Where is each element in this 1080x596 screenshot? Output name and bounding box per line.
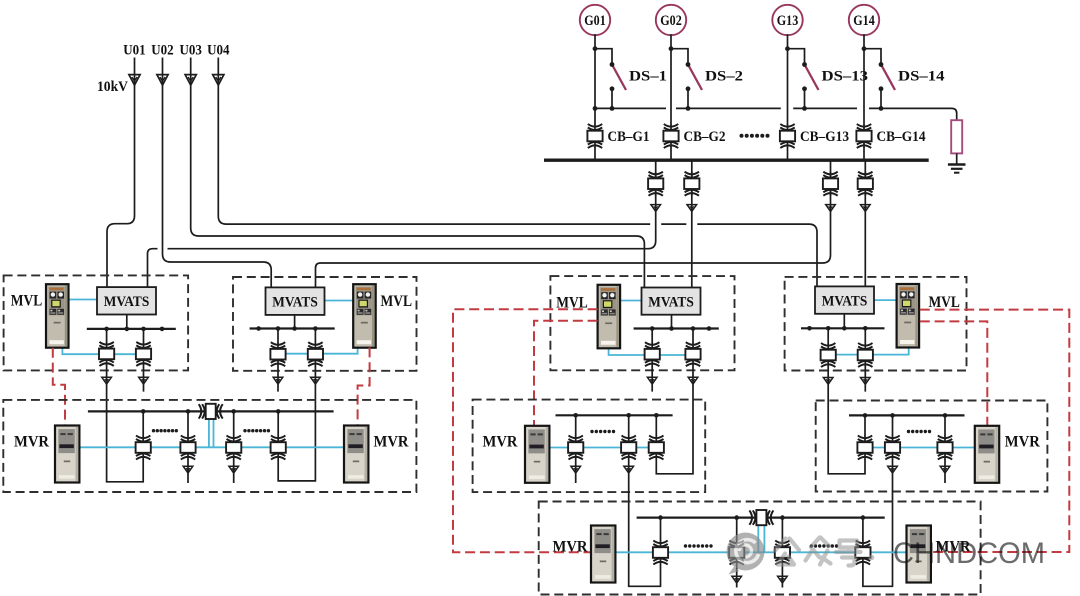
circuit breaker on generator bus feeder [858, 172, 873, 196]
watermark text gongzhonghao [775, 538, 861, 566]
MVL line-up box 3 (dashed enclosure) [550, 276, 734, 370]
cyan link MVATS2 to cabinet2 [324, 300, 353, 302]
incoming feeder arrow on 10kV line [129, 75, 140, 86]
MVL line-up box 4 (dashed enclosure) [785, 277, 967, 371]
watermark logo bubble [727, 533, 765, 575]
svg-text:MVR: MVR [1005, 434, 1041, 451]
cyan link cabinet1 to MVATS1 [69, 299, 98, 301]
wire MVL4 breaker stubs [828, 328, 865, 391]
breaker MVR1-3 [226, 436, 241, 460]
svg-text:G02: G02 [660, 13, 682, 29]
MVL cabinet 3 [598, 285, 621, 349]
feeder arrow [687, 205, 697, 212]
cyan bus MVR1 [79, 446, 344, 448]
cyan bus bottom MVR [615, 551, 907, 553]
arrow MVR1-3 [229, 466, 239, 473]
bus of MVR box 1 [88, 410, 334, 412]
arrow MVR3-1 [571, 466, 581, 473]
wire CB-G2 to busbar [670, 148, 672, 159]
bus of MVL box 4 [801, 327, 885, 329]
wire bus drop to MVATS3 right input [691, 162, 693, 288]
wire U04 feeder to MVATS4 left input [218, 58, 817, 287]
wire generator G14 to breaker [863, 34, 865, 124]
wire bottom breaker stubs [661, 518, 863, 588]
wire U03 feeder to MVATS3 left input [191, 58, 645, 288]
bus of MVL box 3 [634, 327, 719, 329]
svg-text:MVR: MVR [483, 434, 519, 451]
breaker BTM-1 [653, 541, 668, 565]
watermark separator dot [869, 555, 875, 561]
svg-text:U04: U04 [207, 43, 230, 59]
node: MVL3 bus dots [650, 326, 711, 331]
ellipsis MVR4 [907, 430, 931, 433]
wire MVATS4 output drop [843, 314, 845, 329]
wire MVR3 feeder to bottom MVR bus (jog) [629, 459, 661, 586]
svg-text:DS–1: DS–1 [629, 69, 667, 85]
MVATS U2 box [266, 287, 325, 315]
wire bus drop to MVATS4 right input [864, 162, 866, 287]
node: MVL4 bus dots [807, 326, 867, 331]
svg-text:MVATS: MVATS [272, 295, 318, 311]
wire generator G02 to breaker [670, 34, 672, 124]
svg-text:MVATS: MVATS [104, 294, 150, 310]
arrow BTM-3 [778, 576, 788, 583]
svg-text:CHNDCOM: CHNDCOM [893, 537, 1045, 570]
wire MVR1 breaker stubs [143, 411, 278, 483]
wire generator G13 to breaker [787, 34, 789, 124]
svg-text:MVR: MVR [14, 434, 50, 451]
arrow MVR4-2 [888, 466, 898, 473]
cyan bus MVR4 [857, 447, 975, 449]
generator G14 [849, 5, 879, 35]
node: MVR1 bus dots [141, 409, 281, 414]
MVATS U1 box [97, 287, 156, 314]
svg-text:U02: U02 [151, 43, 173, 59]
cyan link cabinet3 to MVATS3 [621, 300, 642, 302]
wire bus drop to MVATS1 right input [148, 162, 656, 288]
ground [948, 165, 966, 173]
wire CB-G13 to busbar [787, 148, 789, 159]
disconnect switch DS-1 blade [612, 65, 626, 91]
disconnect switch DS-14 blade [881, 65, 895, 91]
svg-text:CB–G2: CB–G2 [684, 129, 726, 145]
node: MVR3 bus dots [573, 413, 658, 418]
wire resistor to ground [956, 153, 958, 164]
bus-tie breaker bottom [749, 510, 773, 525]
red control link MVL1 cabinet to MVR cabinet [53, 348, 65, 426]
breaker MVL3-A [645, 342, 660, 366]
MVATS U4 box [815, 286, 874, 313]
breaker MVR3-2 [621, 436, 636, 460]
wire MVL1 breaker stubs [107, 329, 144, 392]
grounding resistor [951, 120, 962, 153]
svg-text:DS–14: DS–14 [898, 69, 945, 85]
arrow MVR1-2 [183, 466, 193, 473]
arrow MVL4-A [823, 378, 833, 385]
node: bottom bus dots [658, 515, 865, 520]
incoming feeder arrow on 10kV line [157, 75, 168, 86]
bus of MVR box 4 [849, 414, 965, 416]
ellipsis MVR3 [590, 430, 615, 433]
cyan bus MVR3 [548, 447, 664, 449]
bus of MVL box 2 [250, 327, 335, 329]
incoming feeder arrow on 10kV line [185, 75, 196, 86]
MVR cabinet 1L [55, 426, 79, 483]
wire MVL2 breaker stubs [278, 329, 315, 392]
red control link MVL3 cabinet to middle MVR cabinet [534, 321, 598, 426]
circuit breaker CB-G14 [856, 124, 871, 148]
wire U02 feeder to MVATS2 left input [163, 58, 272, 288]
breaker BTM-3 [775, 541, 790, 565]
MVR box 4 (dashed enclosure) [816, 401, 1048, 492]
MVATS U3 box [642, 288, 701, 315]
wire DS-1 branch [595, 49, 612, 109]
svg-text:U01: U01 [123, 43, 145, 59]
svg-text:MVATS: MVATS [648, 295, 694, 311]
MVR cabinet bottom-R [907, 526, 931, 583]
ellipsis MVR1 left [152, 429, 178, 432]
arrow MVL3-B [688, 377, 698, 384]
incoming feeder arrow on 10kV line [213, 75, 224, 86]
circuit breaker CB-G1 [587, 124, 602, 148]
breaker MVR4-3 [937, 436, 952, 460]
wire MVR4 feeder to bottom MVR bus (jog) [863, 459, 893, 586]
breaker MVL2-A [270, 342, 285, 366]
disconnect switch DS-2 blade [688, 65, 702, 91]
red control link MVL2 cabinet to MVR cabinet [358, 347, 370, 425]
arrow BTM-2 [732, 576, 742, 583]
wire MVL3 feeder down into MVR box (jog) [656, 384, 693, 474]
wire MVATS2 output drop [294, 315, 296, 329]
MVR cabinet 4 [975, 426, 999, 483]
breaker MVL1-B [136, 342, 151, 366]
cyan link bus-tie to cyan bus [209, 419, 214, 447]
breaker MVR4-1 [857, 436, 872, 460]
wire bus drop to MVATS2 right input [316, 162, 831, 288]
MVR cabinet 3 [525, 426, 549, 483]
arrow MVL3-A [647, 377, 657, 384]
arrow MVL2-A [273, 377, 283, 384]
circuit breaker on generator bus feeder [648, 172, 663, 196]
breaker MVR1-4 [271, 436, 286, 460]
feeder arrow [651, 205, 661, 212]
MVR box 1 (dashed enclosure) [3, 400, 416, 492]
bus of bottom MVR box [637, 516, 885, 518]
generator G01 [580, 5, 610, 35]
node: junction dots DS-13 [785, 46, 807, 91]
MVL line-up box 2 (dashed enclosure) [233, 277, 417, 371]
circuit breaker on generator bus feeder [684, 172, 699, 196]
breaker MVR1-1 [136, 436, 151, 460]
wire generator G01 to breaker [594, 34, 596, 124]
svg-text:CB–G14: CB–G14 [877, 129, 926, 145]
svg-text:MVR: MVR [553, 539, 589, 556]
red control link MVL3 cabinet long loop to bottom MVR [453, 309, 598, 552]
node: DS tie junction dots [593, 106, 884, 111]
wire MVR3 breaker stubs [576, 415, 657, 483]
cyan link breakers to cabinet4 [821, 348, 909, 355]
ellipsis MVR1 right [243, 429, 270, 432]
arrow MVL1-A [102, 377, 112, 384]
arrow MVL2-B [311, 377, 321, 384]
svg-text:CB–G1: CB–G1 [608, 129, 650, 145]
svg-text:MVL: MVL [11, 292, 43, 309]
wire DS-14 branch [864, 49, 881, 109]
node: MVL1 bus dots [104, 327, 164, 332]
svg-text:U03: U03 [180, 43, 202, 59]
cyan link bottom bus-tie to cyan bus [758, 525, 764, 552]
bottom MVR box (dashed enclosure) [539, 502, 981, 595]
breaker BTM-4 [855, 541, 870, 565]
red control link MVL4 cabinet long loop to bottom MVR [920, 310, 1070, 552]
wire CB-G14 to busbar [863, 148, 865, 159]
breaker MVR3-1 [568, 436, 583, 460]
bus-tie breaker MVR1 [199, 404, 223, 419]
svg-text:MVR: MVR [374, 434, 410, 451]
breaker BTM-2 [729, 541, 744, 565]
svg-text:G01: G01 [584, 13, 606, 29]
wire MVR4 breaker stubs [865, 415, 945, 483]
wire DS-13 branch [788, 49, 805, 109]
cyan link MVATS4 to cabinet4 [874, 299, 897, 301]
feeder arrow [826, 205, 836, 212]
wire MVL3 breaker stubs [652, 329, 693, 392]
breaker MVL4-A [821, 343, 836, 367]
generator G13 [772, 5, 802, 35]
MVR cabinet 1R [344, 426, 368, 483]
cyan link cabinet3 to breakers [609, 348, 701, 355]
breaker MVR1-2 [180, 436, 195, 460]
svg-text:CB–G13: CB–G13 [800, 129, 849, 145]
bus of MVR box 3 [556, 414, 673, 416]
breaker MVL1-A [99, 342, 114, 366]
breaker MVL4-B [858, 343, 873, 367]
wire MVL4 feeder down into MVR box (jog) [828, 384, 865, 474]
MVL cabinet 1 [46, 284, 69, 348]
busbar 10kV generator bus [544, 158, 929, 161]
circuit breaker CB-G2 [663, 124, 678, 148]
MVL cabinet 2 [353, 284, 376, 348]
wire U01 feeder to MVATS1 left input [107, 58, 135, 288]
circuit breaker on generator bus feeder [823, 172, 838, 196]
MVL line-up box 1 (dashed enclosure) [4, 275, 189, 370]
wire MVATS3 output drop [671, 315, 673, 329]
wire MVATS1 output drop [126, 315, 128, 329]
arrow MVR4-3 [940, 466, 950, 473]
svg-text:MVATS: MVATS [822, 294, 868, 310]
wire CB-G1 to busbar [594, 148, 596, 159]
cyan link cabinet1 to feeder breakers [62, 348, 150, 354]
circuit breaker CB-G13 [780, 124, 795, 148]
red control link MVL4 cabinet to middle MVR cabinet [920, 321, 988, 425]
svg-text:DS–13: DS–13 [822, 69, 869, 85]
wire DS-2 branch [671, 49, 688, 109]
node: junction dots DS-14 [862, 46, 884, 91]
svg-text:DS–2: DS–2 [705, 69, 743, 85]
disconnect switch DS-13 blade [805, 65, 819, 91]
cyan link breakers to cabinet2 [271, 347, 358, 353]
wire DS tie line [595, 108, 957, 120]
ellipsis between CB-G2 and CB-G13 [740, 134, 770, 138]
arrow MVR3-2 [624, 466, 634, 473]
svg-text:10kV: 10kV [97, 79, 128, 95]
svg-text:MVL: MVL [381, 293, 413, 310]
arrow MVL1-B [139, 377, 149, 384]
node: junction dots DS-2 [669, 46, 691, 91]
breaker MVL2-B [308, 342, 323, 366]
ellipsis bottom left [684, 544, 713, 547]
arrow MVL4-B [861, 378, 871, 385]
ellipsis bottom right [810, 544, 839, 547]
generator G02 [656, 5, 686, 35]
node: MVL2 bus dots [256, 326, 317, 331]
MVL cabinet 4 [897, 284, 920, 348]
feeder arrow [861, 205, 871, 212]
breaker MVL3-B [685, 342, 700, 366]
MVR box 3 (dashed enclosure) [473, 400, 706, 493]
node: MVR4 bus dots [863, 413, 948, 418]
wire MVL2 feeder down to MVR bus (jog) [278, 384, 315, 481]
wire MVL1 feeder down to MVR bus (jog) [107, 384, 144, 482]
breaker MVR4-2 [885, 436, 900, 460]
svg-text:G13: G13 [777, 13, 799, 29]
breaker MVR3-3 [649, 436, 664, 460]
node: junction dots DS-1 [593, 46, 615, 91]
bus of MVL box 1 [87, 328, 176, 330]
MVR cabinet bottom-L [591, 526, 615, 583]
svg-text:G14: G14 [853, 13, 875, 29]
svg-text:MVL: MVL [928, 294, 960, 311]
